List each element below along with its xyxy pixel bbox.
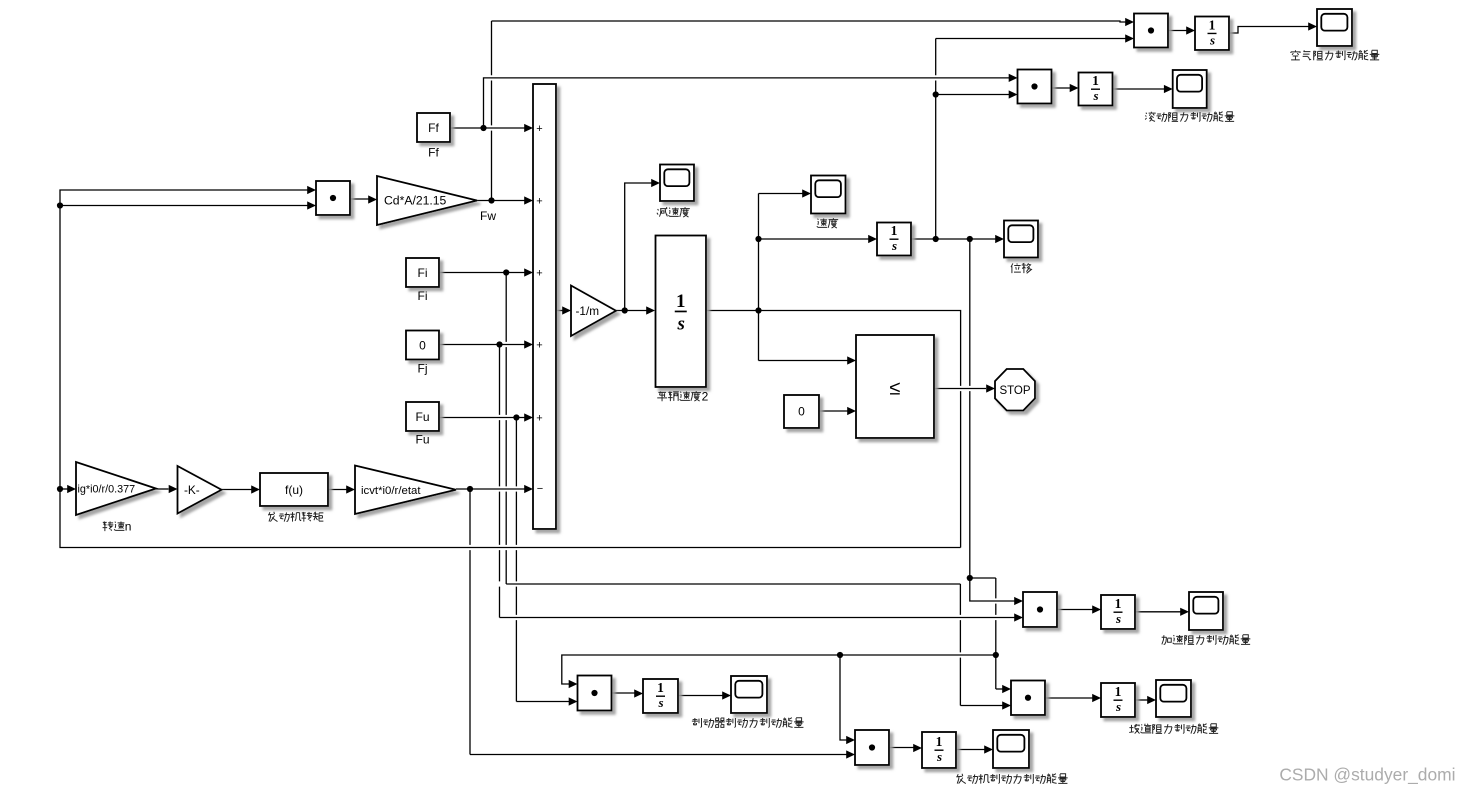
product 发动机 xyxy=(855,730,889,765)
label 位移 (displacement) xyxy=(1011,263,1031,273)
arrowhead into product 制动器 input 1 xyxy=(569,680,578,688)
svg-text:1: 1 xyxy=(657,680,664,695)
arrowhead into sum input 1 xyxy=(524,124,533,132)
arrowhead into gain 转速n xyxy=(67,485,76,493)
wire product 坡道 to integrator xyxy=(1046,697,1093,699)
wire displacement to product 坡道 input 1 xyxy=(996,688,1003,690)
wire engine branch vertical down xyxy=(469,489,471,755)
svg-text:1: 1 xyxy=(1115,596,1122,611)
arrowhead into integrator 坡道 xyxy=(1092,694,1101,702)
gain icvt*i0/r/etat xyxy=(355,466,456,515)
wire integrator 坡道 to scope xyxy=(1135,699,1148,701)
wire displacement up vertical xyxy=(935,39,937,240)
arrowhead into product 加速 input 2 xyxy=(1014,613,1023,621)
svg-text:ig*i0/r/0.377: ig*i0/r/0.377 xyxy=(78,484,136,496)
svg-text:Cd*A/21.15: Cd*A/21.15 xyxy=(384,194,447,208)
svg-text:0: 0 xyxy=(419,338,426,352)
integrator 加速 xyxy=(1101,595,1135,629)
label 制动器制动力制动能量 xyxy=(692,718,804,728)
svg-text:Fj: Fj xyxy=(418,362,428,376)
wire Ff branch up and right to product 滚动 input 1 xyxy=(484,78,1010,128)
wire to relational operator input 1 xyxy=(759,360,848,362)
wire displacement top run to product 空气 input 2 xyxy=(936,38,1126,40)
arrowhead into integrator 空气 xyxy=(1186,26,1195,34)
junction displacement to product 滚动 input 2 xyxy=(933,91,939,97)
arrowhead into sum input 3 xyxy=(524,268,533,276)
wire Fi branch vertical down xyxy=(505,273,507,585)
svg-text:+: + xyxy=(536,123,542,135)
label 坡道阻力制动能量 xyxy=(1129,724,1218,734)
svg-text:f(u): f(u) xyxy=(285,483,303,497)
svg-text:0: 0 xyxy=(798,405,805,419)
svg-text:STOP: STOP xyxy=(999,385,1030,397)
product 坡道阻力 xyxy=(1011,681,1045,716)
wire Fi to sum input 3 xyxy=(439,272,525,274)
arrowhead into product Pfw input 2 xyxy=(307,201,316,209)
wire Pfw to gain Cd*A/21.15 xyxy=(350,198,369,200)
svg-text:Ff: Ff xyxy=(428,121,439,135)
arrowhead into gain icvt*i0/r/etat xyxy=(346,485,355,493)
wire sum out to gain -1/m xyxy=(556,310,563,312)
arrowhead into scope 发动机制动力制动能量 xyxy=(984,745,993,753)
svg-text:s: s xyxy=(677,313,685,334)
gain Cd*A/21.15 (Fw) xyxy=(377,176,477,225)
wire velocity branch to Pfw input 2 xyxy=(60,205,308,207)
scope 速度 xyxy=(811,176,846,214)
wire velocity branch to gain 转速n xyxy=(60,488,68,490)
wire displacement down vertical xyxy=(969,239,971,578)
arrowhead into product 坡道 input 2 xyxy=(1002,701,1011,709)
arrowhead into scope 制动器制动力制动能量 xyxy=(722,691,731,699)
product 滚动阻力 xyxy=(1018,70,1052,104)
wire product 制动器 to integrator xyxy=(612,692,635,694)
label 减速度 (deceleration) xyxy=(657,207,690,217)
label 发动机转矩 (engine torque) xyxy=(268,512,323,522)
arrowhead into scope 位移 xyxy=(995,235,1004,243)
wire integrator 发动机 to scope xyxy=(956,749,985,751)
wire displacement vertical x=995.8 xyxy=(995,578,997,689)
wire Fj branch right to product 加速 input 2 xyxy=(500,617,1015,619)
integrator 1/s position xyxy=(877,223,911,256)
junction Fj branch xyxy=(496,341,502,347)
junction engine torque branch xyxy=(467,486,473,492)
wire displacement branch down to product 发动机 input 1 xyxy=(840,655,847,740)
svg-text:CSDN @studyer_domi: CSDN @studyer_domi xyxy=(1279,765,1455,785)
wire product 加速 to integrator xyxy=(1057,609,1093,611)
gain -K- xyxy=(178,466,222,514)
arrowhead into product 坡道 input 1 xyxy=(1002,685,1011,693)
arrowhead into integrator 车辆速度2 xyxy=(646,306,655,314)
label 滚动阻力制动能量 xyxy=(1145,112,1234,122)
relational operator <= xyxy=(856,335,934,438)
wire product 空气 to integrator xyxy=(1168,30,1187,32)
arrowhead into gain -1/m xyxy=(562,306,571,314)
arrowhead into integrator 制动器 xyxy=(634,689,643,697)
label 转速n xyxy=(103,520,132,534)
wire Fw branch vertical up xyxy=(491,21,493,201)
wire engine branch right to product 发动机 input 2 xyxy=(470,754,847,756)
junction velocity to engine gain xyxy=(57,486,63,492)
label 发动机制动力制动能量 xyxy=(956,774,1067,784)
arrowhead into scope 滚动阻力制动能量 xyxy=(1164,85,1173,93)
wire branch up to scope 减速度 xyxy=(625,183,652,311)
arrowhead into integrator 发动机 xyxy=(913,744,922,752)
arrowhead into product 制动器 input 2 xyxy=(569,697,578,705)
arrowhead into product 加速 input 1 xyxy=(1014,597,1023,605)
wire constant 0 to relational input 2 xyxy=(819,410,848,412)
arrowhead into scope 空气阻力制动能量 xyxy=(1308,22,1317,30)
svg-text:1: 1 xyxy=(891,223,898,238)
constant Ff xyxy=(417,113,450,142)
arrowhead into scope 坡道阻力制动能量 xyxy=(1147,696,1156,704)
svg-text:s: s xyxy=(1209,32,1215,47)
svg-text:Ff: Ff xyxy=(428,146,439,160)
junction displacement to left lower run xyxy=(993,652,999,658)
wire gain icvt to sum input 6 xyxy=(456,488,525,490)
scope 位移 xyxy=(1004,221,1038,258)
arrowhead into product 滚动 input 2 xyxy=(1009,90,1018,98)
svg-text:Fi: Fi xyxy=(418,266,428,280)
junction Fu branch xyxy=(513,414,519,420)
product 制动器 xyxy=(578,676,612,711)
junction Fi branch xyxy=(503,269,509,275)
arrowhead into sum input 4 xyxy=(524,340,533,348)
junction Ff branch xyxy=(480,125,486,131)
wire Fw to sum input 2 xyxy=(477,200,525,202)
wire f(u) to gain icvt xyxy=(328,489,347,491)
scope 空气阻力制动能量 xyxy=(1317,9,1352,46)
junction deceleration branch xyxy=(622,307,628,313)
arrowhead into product 空气 input 2 xyxy=(1125,34,1134,42)
wire displacement to product 加速 input 1 xyxy=(970,578,1015,601)
wire Fu branch right to product 制动器 input 2 xyxy=(516,701,569,703)
integrator 1/s 车辆速度2 xyxy=(656,236,707,388)
wire vertical branch at x=758.5 xyxy=(758,194,760,361)
wire gain -K- to f(u) xyxy=(222,489,252,491)
arrowhead into product 发动机 input 1 xyxy=(846,736,855,744)
wire to position integrator xyxy=(759,238,869,240)
svg-text:s: s xyxy=(936,749,942,764)
arrowhead into gain -K- xyxy=(169,485,178,493)
arrowhead into product 发动机 input 2 xyxy=(846,750,855,758)
arrowhead into relational operator input 2 xyxy=(847,407,856,415)
svg-text:1: 1 xyxy=(1092,73,1099,88)
wire Fi branch to product 坡道 input 2 xyxy=(960,705,1002,707)
junction on integrator output for scope/position branch xyxy=(755,307,761,313)
junction velocity to Pfw input 2 xyxy=(57,202,63,208)
arrowhead into product 滚动 input 1 xyxy=(1009,74,1018,82)
arrowhead into scope 减速度 xyxy=(651,179,660,187)
svg-text:+: + xyxy=(536,340,542,352)
STOP simulation block xyxy=(995,369,1035,411)
scope 滚动阻力制动能量 xyxy=(1173,70,1207,108)
scope 发动机制动力制动能量 xyxy=(993,730,1029,768)
product 加速阻力 xyxy=(1023,592,1057,627)
svg-text:icvt*i0/r/etat: icvt*i0/r/etat xyxy=(361,485,421,497)
svg-text:+: + xyxy=(536,268,542,280)
arrowhead into integrator 滚动 xyxy=(1070,84,1079,92)
scope 坡道阻力制动能量 xyxy=(1156,680,1191,717)
wire Fu branch vertical down xyxy=(515,418,517,702)
wire displacement jog right xyxy=(970,577,996,579)
arrowhead into sum input 5 xyxy=(524,413,533,421)
constant Fu xyxy=(406,402,439,431)
svg-text:Fu: Fu xyxy=(415,410,429,424)
wire integrator 空气 to scope xyxy=(1229,27,1309,34)
arrowhead into relational operator input 1 xyxy=(847,356,856,364)
wire integrator 滚动 to scope xyxy=(1113,88,1165,90)
svg-text:s: s xyxy=(657,695,663,710)
wire velocity vertical lower part with gap at STOP wire xyxy=(960,391,962,547)
svg-text:s: s xyxy=(891,238,897,253)
svg-text:s: s xyxy=(1092,88,1098,103)
integrator 发动机 xyxy=(922,732,956,768)
wire velocity: integrator out to right then down and long left run xyxy=(706,311,961,386)
svg-text:−: − xyxy=(537,483,543,495)
constant 0 (Fj) xyxy=(406,331,439,360)
svg-text:≤: ≤ xyxy=(890,378,901,400)
wire Fi branch vertical x=960.4 xyxy=(959,584,961,706)
svg-text:1: 1 xyxy=(1115,684,1122,699)
integrator 滚动 xyxy=(1079,73,1113,106)
label 加速阻力制动能量 xyxy=(1162,635,1251,645)
constant Fi xyxy=(406,258,439,287)
svg-text:s: s xyxy=(1115,699,1121,714)
fcn block f(u) 发动机转矩 xyxy=(260,473,328,506)
wire displacement branch to product 滚动 input 2 xyxy=(936,94,1009,96)
arrowhead into scope 加速阻力制动能量 xyxy=(1180,608,1189,616)
wire integrator 加速 to scope xyxy=(1135,611,1181,613)
wire relational to STOP xyxy=(934,388,986,390)
svg-text:1: 1 xyxy=(676,291,686,312)
svg-text:Fw: Fw xyxy=(480,209,496,223)
label 速度 (speed) xyxy=(817,218,838,228)
wire displacement lower-left run xyxy=(562,655,996,684)
wire product 滚动 to integrator xyxy=(1052,87,1071,89)
arrowhead into scope 速度 xyxy=(802,189,811,197)
svg-text:Fi: Fi xyxy=(418,289,428,303)
junction displacement up branch xyxy=(933,236,939,242)
scope 制动器制动力制动能量 xyxy=(731,676,767,713)
wire Ff to sum input 1 xyxy=(450,127,525,129)
wire gain 转速n to gain -K- xyxy=(156,488,169,490)
wire to scope 速度 xyxy=(759,193,803,195)
wire Fw top run to product 空气 input 1 xyxy=(492,21,1126,22)
wire Fu to sum input 5 xyxy=(439,417,525,419)
wire product 发动机 to integrator xyxy=(889,747,914,749)
svg-text:-K-: -K- xyxy=(184,483,200,497)
junction Fw branch xyxy=(488,197,494,203)
junction to position integrator xyxy=(755,236,761,242)
integrator 制动器 xyxy=(643,679,678,713)
arrowhead into gain Cd*A/21.15 xyxy=(368,195,377,203)
wire integrator 制动器 to scope xyxy=(678,695,723,697)
arrowhead into fcn f(u) xyxy=(251,485,260,493)
constant 0 (threshold) xyxy=(784,395,819,428)
gain 转速n ig*i0/r/0.377 xyxy=(76,462,156,515)
arrowhead into product 空气 input 1 xyxy=(1125,18,1134,26)
junction displacement to product 发动机 input 1 xyxy=(837,652,843,658)
svg-text:+: + xyxy=(536,196,542,208)
gain -1/m xyxy=(571,286,616,337)
integrator 空气 xyxy=(1195,17,1229,51)
wire Fi branch right run xyxy=(506,583,960,585)
svg-text:+: + xyxy=(536,413,542,425)
scope 加速阻力制动能量 xyxy=(1189,592,1223,630)
svg-text:1: 1 xyxy=(936,734,943,749)
svg-text:s: s xyxy=(1115,611,1121,626)
svg-text:1: 1 xyxy=(1209,17,1216,32)
wire Fj branch vertical down xyxy=(499,345,501,618)
label 车辆速度2 (vehicle speed 2) xyxy=(657,390,708,404)
integrator 坡道 xyxy=(1101,683,1135,717)
arrowhead into sum input 2 xyxy=(524,196,533,204)
product Pfw (velocity squared) xyxy=(316,181,350,215)
junction displacement lower split xyxy=(967,575,973,581)
svg-text:2: 2 xyxy=(702,390,709,404)
wire Fj to sum input 4 xyxy=(439,344,525,346)
arrowhead into sum input 6 (minus) xyxy=(524,485,533,493)
arrowhead into integrator position xyxy=(868,235,877,243)
wire position integrator out to scope 位移 xyxy=(911,238,996,240)
arrowhead into integrator 加速 xyxy=(1092,605,1101,613)
sum block (6 inputs) xyxy=(533,84,556,529)
arrowhead into STOP xyxy=(986,384,995,392)
product 空气阻力 xyxy=(1134,14,1168,48)
svg-text:-1/m: -1/m xyxy=(576,304,600,318)
scope 减速度 xyxy=(660,165,694,202)
junction displacement down branch xyxy=(967,236,973,242)
svg-text:n: n xyxy=(125,520,132,534)
label 空气阻力制动能量 xyxy=(1291,50,1379,60)
wire velocity long horizontal to far left and up xyxy=(60,190,961,548)
svg-text:Fu: Fu xyxy=(415,433,429,447)
wire gain -1/m to integrator xyxy=(616,310,647,312)
arrowhead into product Pfw input 1 xyxy=(307,186,316,194)
